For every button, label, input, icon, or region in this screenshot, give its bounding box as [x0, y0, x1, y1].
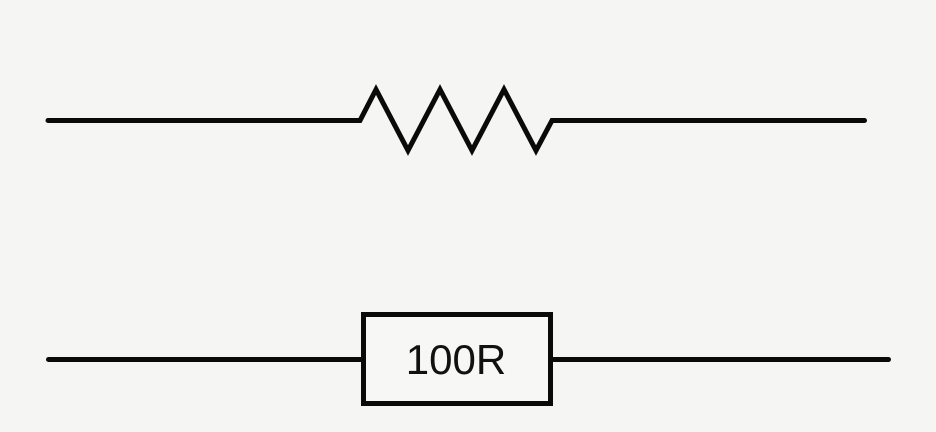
svg-text:100R: 100R [406, 336, 506, 383]
